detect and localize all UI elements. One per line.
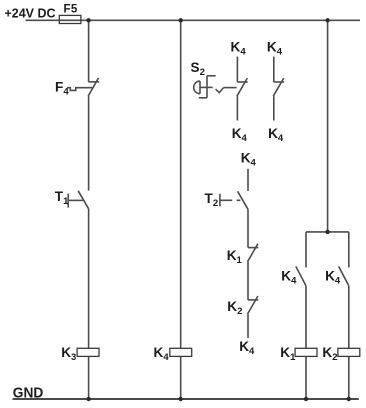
svg-text:K4: K4 <box>154 345 170 363</box>
svg-text:K1: K1 <box>280 345 296 363</box>
svg-text:K4: K4 <box>268 126 284 144</box>
svg-text:K4: K4 <box>267 40 283 58</box>
svg-text:F4: F4 <box>55 79 69 97</box>
svg-text:K4: K4 <box>281 269 297 287</box>
svg-text:K4: K4 <box>239 339 255 357</box>
svg-text:F5: F5 <box>64 4 78 16</box>
svg-text:S2: S2 <box>191 60 205 78</box>
svg-text:K4: K4 <box>232 126 248 144</box>
svg-text:K4: K4 <box>231 40 247 58</box>
svg-text:K1: K1 <box>227 248 243 266</box>
svg-text:K2: K2 <box>227 299 242 317</box>
svg-text:GND: GND <box>13 384 44 401</box>
svg-text:K4: K4 <box>325 269 341 287</box>
svg-text:T1: T1 <box>55 189 69 207</box>
svg-text:K3: K3 <box>61 345 76 363</box>
svg-text:+24V DC: +24V DC <box>5 5 57 20</box>
svg-text:T2: T2 <box>205 191 219 209</box>
svg-text:K4: K4 <box>241 151 257 169</box>
svg-text:K2: K2 <box>322 345 337 363</box>
